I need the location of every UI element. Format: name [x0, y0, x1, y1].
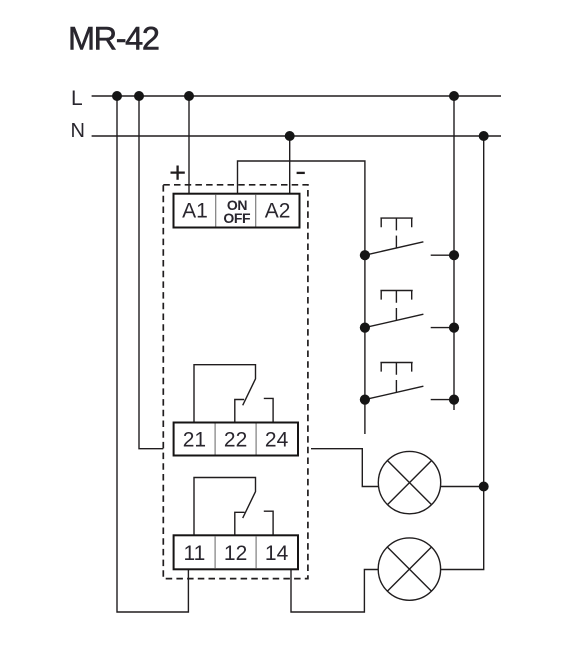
wire terminal 14 to lamp E2 [291, 569, 378, 612]
node S3 right [449, 395, 459, 405]
terminal block 11 12 14 [174, 535, 298, 569]
wire N bus [92, 135, 501, 137]
wire L to push-button right column [453, 96, 455, 410]
wire L to terminal 11 (left loop) [117, 96, 188, 612]
wire terminal 24 to lamp E1 [311, 449, 378, 487]
node L-buttons [449, 91, 459, 101]
relay body MR-42 dashed outline [163, 185, 308, 579]
svg-text:MR-42: MR-42 [68, 21, 159, 57]
node L-21 [134, 91, 144, 101]
relay contact 11-12-14 [194, 478, 273, 536]
svg-text:21: 21 [183, 429, 206, 452]
wire N to lamps (far right) [441, 136, 484, 570]
svg-text:12: 12 [224, 542, 247, 565]
svg-text:A1: A1 [182, 199, 208, 222]
lamp E1 [378, 451, 440, 513]
push-button S1 [365, 218, 454, 255]
node N-A2 [285, 131, 295, 141]
node S1 right [449, 250, 459, 260]
polarity minus [297, 172, 305, 174]
wire L to terminal 21 [139, 96, 163, 449]
node lamp E1 return [479, 482, 489, 492]
svg-text:L: L [71, 87, 83, 110]
wire ON/OFF to push-button column [238, 161, 365, 434]
svg-text:N: N [71, 120, 85, 142]
lamp E2 [378, 538, 440, 600]
terminal block 21 22 24 [174, 423, 298, 456]
push-button S2 [365, 291, 454, 328]
svg-text:24: 24 [265, 429, 289, 452]
svg-text:OFF: OFF [223, 210, 251, 226]
node L-A1 [184, 91, 194, 101]
wire L to terminal A1 [188, 96, 190, 194]
svg-text:22: 22 [224, 429, 247, 452]
relay contact 21-22-24 [194, 365, 273, 423]
node S3 left [360, 395, 370, 405]
svg-text:14: 14 [265, 542, 289, 565]
polarity plus [171, 166, 185, 180]
terminal block A1 ON/OFF A2 [174, 194, 300, 228]
node N-lamps [479, 131, 489, 141]
svg-text:A2: A2 [265, 199, 291, 222]
wire N to terminal A2 [289, 136, 291, 194]
node S2 right [449, 323, 459, 333]
node S2 left [360, 323, 370, 333]
wire L bus [92, 95, 501, 97]
svg-text:11: 11 [183, 542, 205, 565]
push-button S3 [365, 363, 454, 400]
node L-11 [112, 91, 122, 101]
wire lamp E1 to far right line [441, 486, 484, 488]
node S1 left [360, 250, 370, 260]
